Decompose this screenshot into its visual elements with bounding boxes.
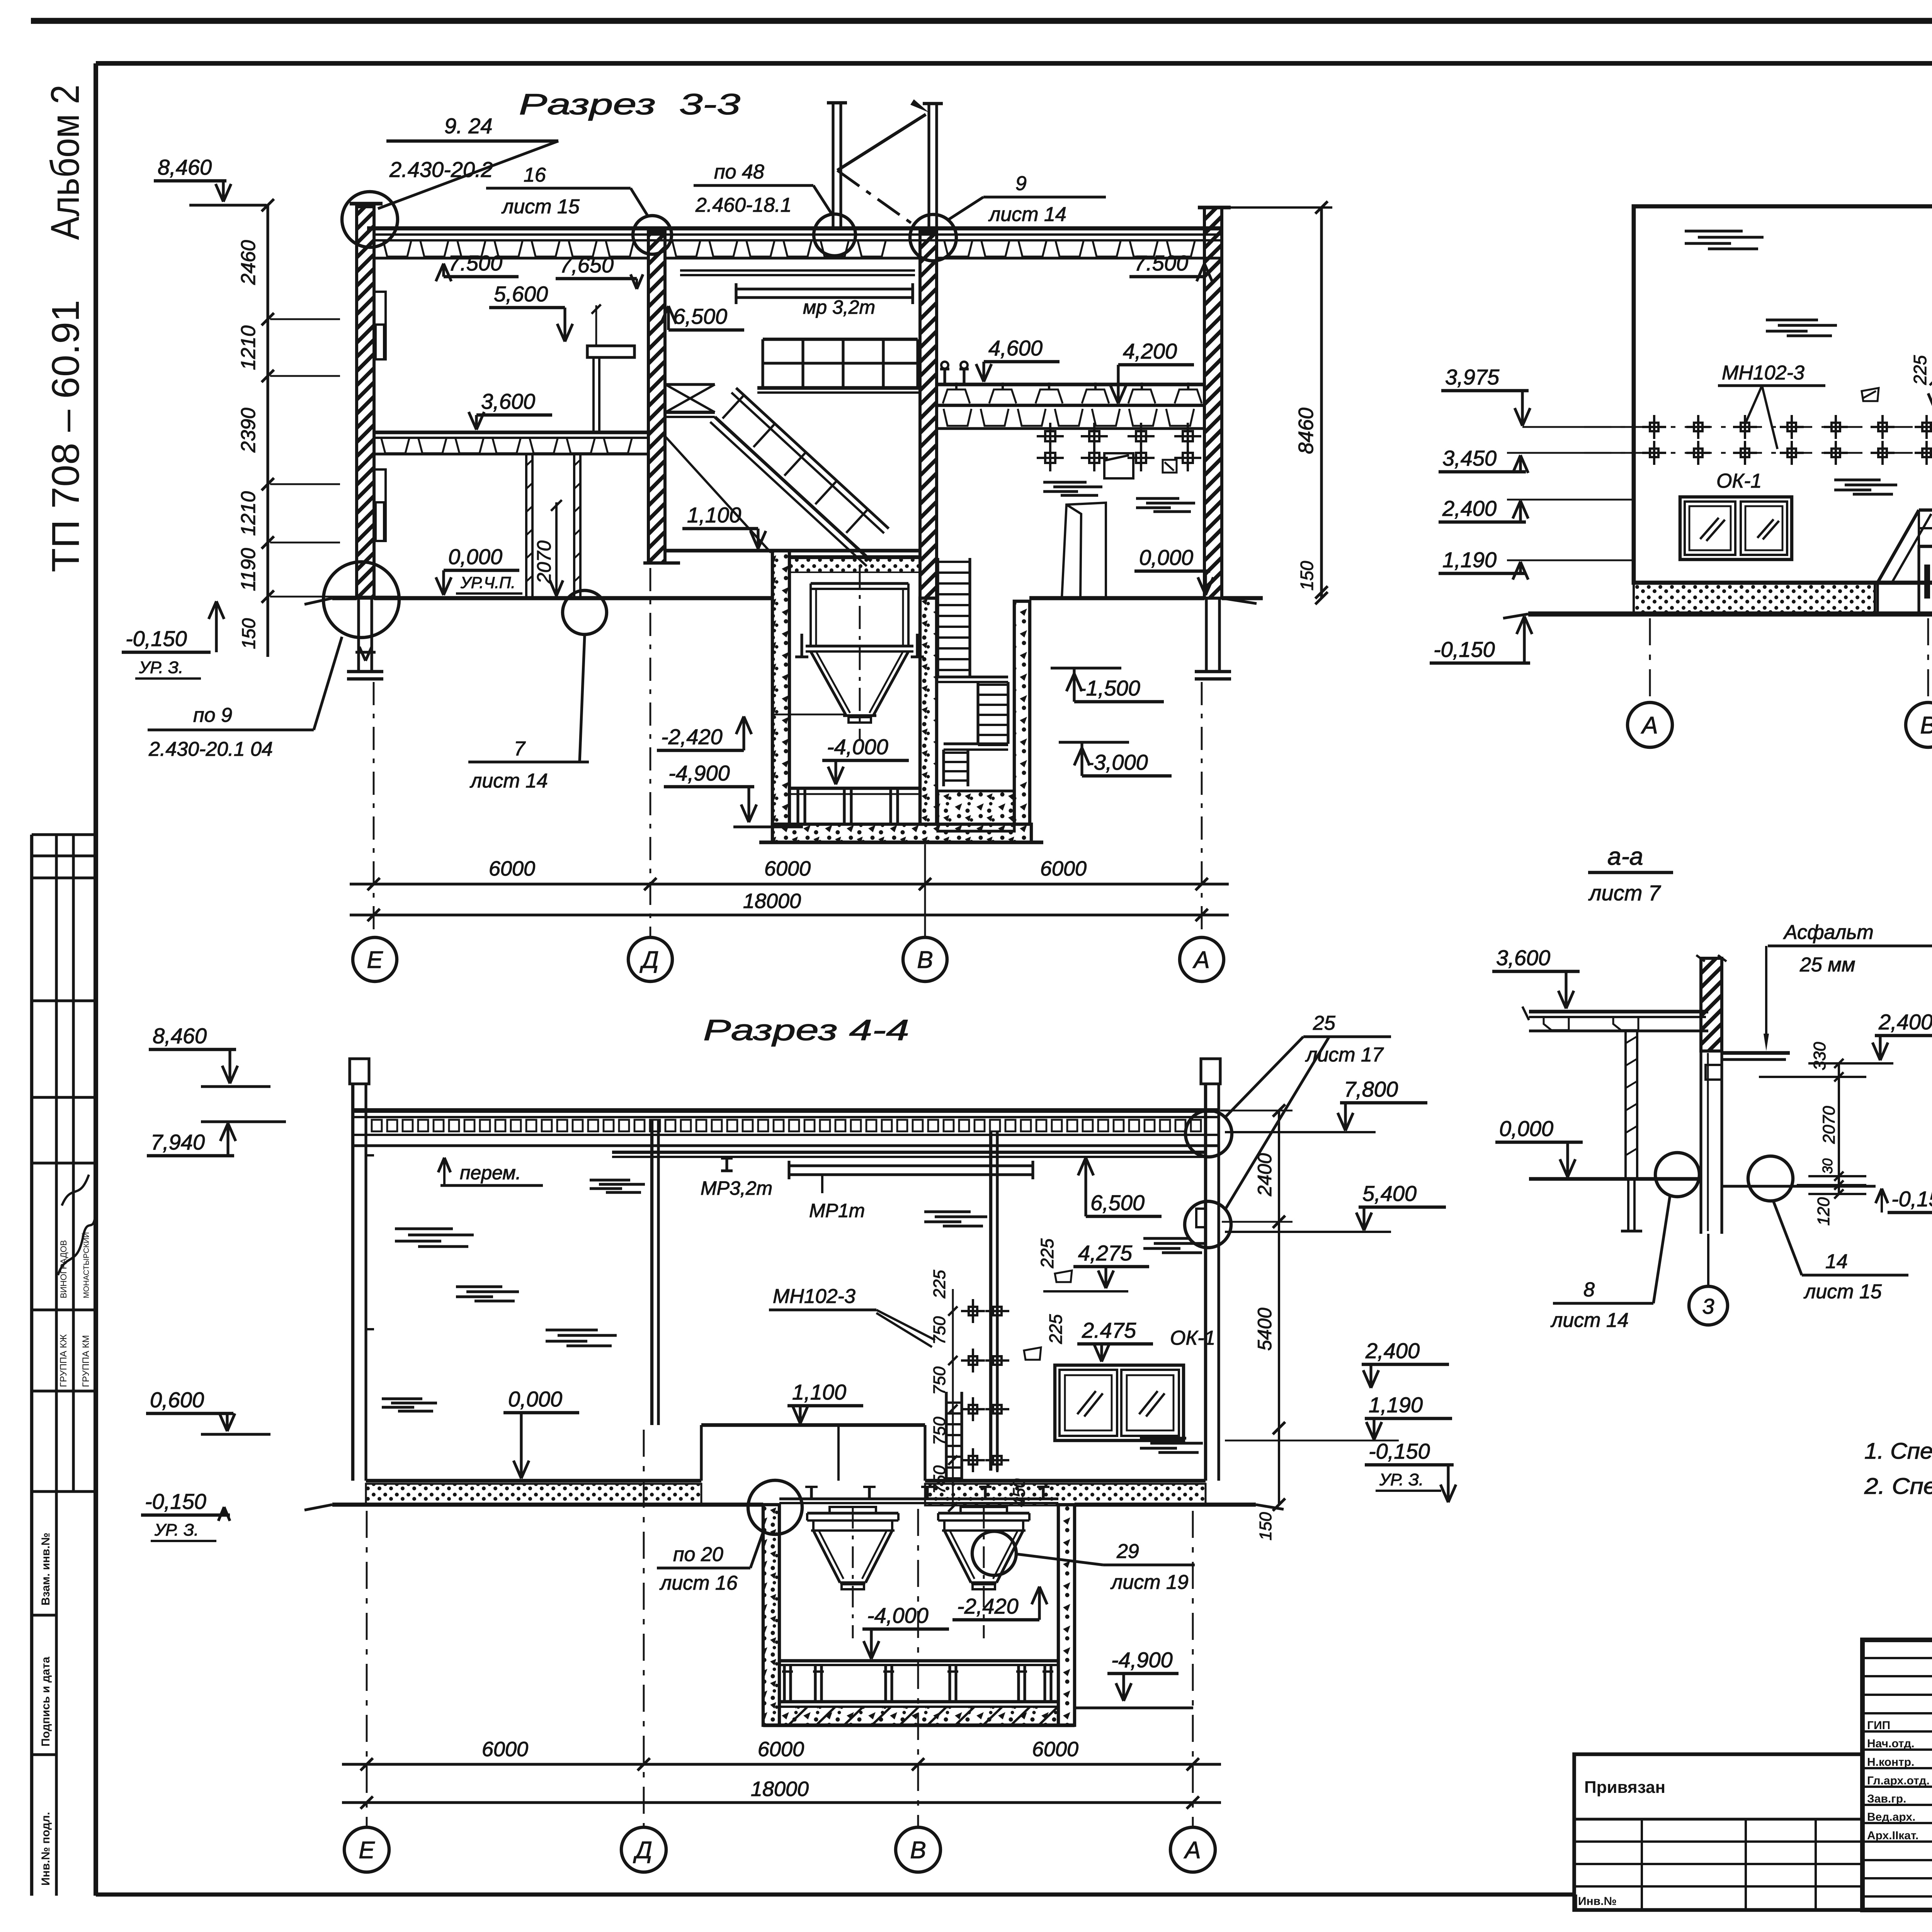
- wall axis B (hatched above ground): [920, 232, 937, 598]
- svg-text:А: А: [1192, 947, 1209, 973]
- platform +1.100 section 4-4: [701, 1423, 925, 1427]
- svg-text:МР3,2т: МР3,2т: [701, 1177, 772, 1199]
- svg-text:18000: 18000: [743, 889, 801, 913]
- svg-text:-0,150: -0,150: [1891, 1187, 1932, 1211]
- anchor crosses column section 4-4: [969, 1307, 977, 1315]
- svg-text:120: 120: [1814, 1197, 1833, 1226]
- ladder section 4-4: [945, 1392, 947, 1480]
- level mark -1.500: [1051, 667, 1121, 669]
- facade axis circle B: [1906, 702, 1932, 747]
- porch platform front: [1919, 546, 1932, 614]
- svg-text:МН102-3: МН102-3: [1722, 362, 1804, 384]
- left mid landing: [665, 411, 715, 414]
- svg-text:перем.: перем.: [460, 1162, 521, 1184]
- svg-text:2.430-20.2: 2.430-20.2: [389, 157, 493, 182]
- svg-text:Гл.арх.отд.: Гл.арх.отд.: [1867, 1774, 1930, 1787]
- svg-text:ГРУППА КЖ: ГРУППА КЖ: [58, 1334, 69, 1387]
- basement stair bank 1: [936, 558, 939, 677]
- svg-text:Д: Д: [639, 947, 659, 973]
- hopper 1 section 4-4: [807, 1512, 898, 1514]
- small flag symbol 2 section 4-4: [1024, 1347, 1041, 1360]
- svg-text:150: 150: [239, 618, 259, 649]
- axis extensions section 4-4: [366, 1511, 368, 1828]
- hopper centerline: [859, 565, 861, 740]
- svg-text:-0,150: -0,150: [1434, 637, 1495, 662]
- pit floor and posts section 4-4: [779, 1659, 1058, 1662]
- title block signature rows: [1862, 1657, 1932, 1659]
- detail circle roof right corner: [1185, 1111, 1232, 1157]
- svg-text:30: 30: [1820, 1158, 1835, 1174]
- svg-text:2070: 2070: [533, 541, 555, 584]
- svg-text:7.500: 7.500: [448, 251, 502, 275]
- svg-text:ТП 708 – 60.91: ТП 708 – 60.91: [44, 300, 87, 572]
- svg-text:Привязан: Привязан: [1584, 1778, 1665, 1797]
- svg-text:7,940: 7,940: [151, 1130, 205, 1154]
- svg-text:3,600: 3,600: [1496, 946, 1550, 970]
- svg-text:7,650: 7,650: [560, 253, 614, 277]
- detail a-a canopy: [1722, 1051, 1790, 1055]
- facade axis leader B: [1927, 618, 1929, 702]
- svg-text:-0,150: -0,150: [126, 626, 187, 651]
- svg-text:2,400: 2,400: [1442, 496, 1497, 520]
- left dimension chain: [266, 205, 269, 657]
- detail circle po48 mast base: [814, 214, 855, 256]
- right wall section 4-4: [1204, 1084, 1207, 1481]
- svg-text:6000: 6000: [482, 1738, 528, 1761]
- svg-text:150: 150: [1297, 561, 1317, 590]
- svg-text:7.500: 7.500: [1134, 251, 1188, 275]
- svg-text:6000: 6000: [758, 1738, 804, 1761]
- svg-text:1210: 1210: [237, 325, 260, 370]
- middle wall axis D section 4-4: [650, 1121, 653, 1425]
- svg-text:Асфальт: Асфальт: [1783, 921, 1874, 944]
- wall axis B section 4-4: [989, 1132, 992, 1471]
- pit bottom slab: [772, 824, 1031, 842]
- axis circle E section 4-4: [344, 1827, 389, 1872]
- svg-text:лист 16: лист 16: [659, 1572, 738, 1594]
- svg-text:225: 225: [1910, 355, 1930, 385]
- svg-text:2.460-18.1: 2.460-18.1: [695, 194, 792, 216]
- svg-text:8,460: 8,460: [158, 155, 212, 179]
- anchor crosses row 2: [1650, 449, 1658, 457]
- hopper 2 section 4-4: [938, 1512, 1029, 1514]
- svg-text:-0,150: -0,150: [145, 1489, 206, 1514]
- partition 5.600 upper left bay: [587, 346, 634, 357]
- dimension line 18000 section 3-3: [350, 913, 1229, 916]
- wall break mark below E base: [355, 651, 376, 653]
- svg-text:МР1т: МР1т: [809, 1200, 865, 1221]
- svg-text:Е: Е: [359, 1837, 375, 1864]
- axis circle B section 4-4: [896, 1827, 940, 1872]
- detail circle D-roof: [633, 216, 672, 254]
- svg-text:3,450: 3,450: [1442, 446, 1497, 470]
- facade axis leader A: [1649, 618, 1651, 702]
- svg-text:А: А: [1183, 1837, 1201, 1864]
- column A below ground with foundation: [1205, 598, 1207, 672]
- svg-text:225: 225: [1037, 1238, 1057, 1269]
- MN102-3 leaders: [1745, 386, 1762, 424]
- svg-text:0,000: 0,000: [448, 544, 502, 569]
- ground line section 3-3: [332, 596, 357, 600]
- wall axis A (right, hatched): [1204, 207, 1222, 598]
- facade texture dashes: [1685, 230, 1743, 232]
- svg-text:В: В: [910, 1837, 926, 1864]
- dimension line 6000x3 section 4-4: [342, 1763, 1221, 1765]
- svg-text:0,000: 0,000: [508, 1387, 562, 1411]
- svg-text:В: В: [917, 947, 933, 973]
- basement stair bank 3: [942, 750, 945, 786]
- svg-text:Инв.№ подл.: Инв.№ подл.: [39, 1812, 52, 1886]
- svg-text:16: 16: [524, 164, 546, 186]
- svg-text:6000: 6000: [1040, 857, 1087, 880]
- svg-text:9. 24: 9. 24: [444, 114, 493, 138]
- svg-text:лист 19: лист 19: [1110, 1571, 1189, 1594]
- svg-text:лист 15: лист 15: [501, 196, 580, 218]
- detail a-a wall above slab hatched: [1701, 958, 1722, 1051]
- svg-text:7,800: 7,800: [1344, 1077, 1398, 1101]
- detail a-a floor slab: [1529, 1010, 1708, 1014]
- texture dashes section 4-4: [395, 1227, 453, 1230]
- svg-text:330: 330: [1810, 1042, 1829, 1070]
- svg-text:6000: 6000: [764, 857, 811, 880]
- pit base slab section 4-4: [779, 1707, 1058, 1725]
- svg-text:УР.Ч.П.: УР.Ч.П.: [460, 573, 515, 592]
- stair flight pickets: [723, 395, 744, 418]
- svg-text:3,975: 3,975: [1445, 365, 1500, 389]
- drawing frame: [96, 61, 1932, 66]
- svg-text:2,400: 2,400: [1878, 1010, 1932, 1034]
- stair shaft right wall concrete: [1014, 601, 1030, 824]
- svg-text:мр 3,2т: мр 3,2т: [803, 296, 875, 318]
- roof section 4-4: [353, 1108, 1219, 1113]
- svg-text:9: 9: [1015, 172, 1027, 195]
- pit hopper body: [810, 583, 812, 646]
- pit hopper rim: [811, 582, 908, 585]
- svg-text:-1,500: -1,500: [1079, 676, 1140, 700]
- wall opening squares right room: [1104, 453, 1133, 478]
- under-stair strut: [665, 437, 771, 553]
- svg-text:Альбом 2: Альбом 2: [43, 85, 88, 240]
- level line -2.420 extension: [774, 714, 844, 716]
- svg-text:-3,000: -3,000: [1087, 750, 1148, 774]
- door leaf right room: [1062, 503, 1106, 598]
- svg-text:Подпись и дата: Подпись и дата: [39, 1656, 52, 1747]
- svg-text:8,460: 8,460: [153, 1024, 207, 1048]
- wall axis B below ground (concrete): [920, 598, 937, 824]
- svg-text:225: 225: [930, 1270, 949, 1299]
- svg-text:0,000: 0,000: [1499, 1116, 1553, 1141]
- svg-text:2,400: 2,400: [1365, 1338, 1420, 1363]
- svg-text:лист 14: лист 14: [988, 203, 1066, 226]
- monorail MR 3.2t beam: [736, 289, 913, 298]
- facade axis circle A: [1628, 702, 1672, 747]
- svg-text:-4,000: -4,000: [827, 735, 888, 759]
- stair shaft bottom block: [938, 791, 1014, 831]
- porch posts: [1924, 565, 1930, 599]
- detail circle pit corner: [748, 1480, 802, 1534]
- svg-text:750: 750: [930, 1316, 949, 1345]
- left stamp signatures: [58, 1217, 95, 1275]
- level mark -3.000: [1059, 741, 1129, 743]
- svg-text:8460: 8460: [1294, 408, 1318, 454]
- svg-text:1,100: 1,100: [687, 503, 741, 527]
- upper landing floor: [757, 386, 920, 390]
- svg-text:1210: 1210: [237, 491, 260, 536]
- detail circle partition base: [563, 590, 607, 634]
- dimension line 18000 section 4-4: [342, 1801, 1221, 1804]
- stair flight diagonals: [715, 417, 871, 561]
- svg-text:Н.контр.: Н.контр.: [1867, 1756, 1914, 1769]
- svg-text:29: 29: [1116, 1540, 1139, 1563]
- monorail beams mid bay: [680, 269, 915, 272]
- crane rail beam section 4-4: [612, 1151, 1206, 1154]
- axis circle D section 3-3: [628, 937, 672, 981]
- dim chain 750 section 4-4: [952, 1289, 954, 1507]
- floor line 0.000 section 4-4: [366, 1479, 701, 1483]
- svg-text:0,000: 0,000: [1139, 545, 1193, 570]
- svg-text:1,100: 1,100: [792, 1380, 846, 1404]
- svg-text:-2,420: -2,420: [661, 724, 723, 749]
- svg-text:2390: 2390: [237, 408, 260, 453]
- porch left ramp: [1878, 510, 1919, 583]
- roof slab section 3-3: [367, 226, 1222, 231]
- svg-text:Разрез 4-4: Разрез 4-4: [703, 1014, 909, 1047]
- svg-text:2. Спецификация стальных эле: 2. Спецификация стальных элементов — лис…: [1864, 1474, 1932, 1499]
- svg-text:3,600: 3,600: [481, 389, 535, 413]
- left wall section 4-4: [351, 1084, 354, 1481]
- svg-text:ГИП: ГИП: [1867, 1719, 1890, 1732]
- axis circle A section 3-3: [1180, 937, 1224, 981]
- svg-text:Разрез 3-3: Разрез 3-3: [519, 88, 740, 121]
- svg-text:2.430-20.1 04: 2.430-20.1 04: [148, 738, 273, 760]
- small posts left end of sleeper row: [943, 369, 946, 384]
- right dim chain section 4-4: [1278, 1111, 1280, 1505]
- small flag symbol facade: [1862, 388, 1879, 401]
- pit right wall section 4-4: [1058, 1505, 1075, 1725]
- wall axis E (left, hatched): [357, 207, 374, 598]
- svg-text:лист 14: лист 14: [469, 770, 548, 792]
- svg-text:150: 150: [1256, 1512, 1275, 1541]
- svg-text:А: А: [1640, 712, 1658, 739]
- basement stair bank 2: [976, 682, 979, 744]
- stair landings: [938, 675, 1008, 678]
- detail ground lines: [1529, 1177, 1698, 1181]
- svg-text:УР. З.: УР. З.: [1379, 1470, 1423, 1489]
- detail dim chain verticals: [1838, 1063, 1840, 1194]
- svg-text:6000: 6000: [489, 857, 535, 880]
- svg-text:4,600: 4,600: [988, 336, 1043, 360]
- facade outline: [1634, 206, 1932, 583]
- svg-text:2400: 2400: [1254, 1153, 1276, 1196]
- label perem with arrow: [443, 1160, 446, 1185]
- svg-text:25: 25: [1313, 1012, 1336, 1034]
- svg-text:лист 7: лист 7: [1588, 881, 1661, 905]
- facade plinth dotted band: [1634, 583, 1875, 614]
- svg-text:18000: 18000: [751, 1777, 809, 1801]
- floor slab 3.600 left bay: [374, 430, 648, 434]
- svg-text:3: 3: [1702, 1294, 1714, 1318]
- svg-text:Взам. инв.№: Взам. инв.№: [39, 1532, 52, 1605]
- small flag symbol 1 section 4-4: [1055, 1270, 1072, 1282]
- svg-text:8: 8: [1583, 1279, 1595, 1301]
- svg-text:6000: 6000: [1032, 1738, 1078, 1761]
- axis circle B section 3-3: [903, 937, 947, 981]
- facade ground line: [1528, 611, 1932, 616]
- svg-text:25 мм: 25 мм: [1799, 954, 1855, 976]
- pit ceiling beams section 4-4: [779, 1497, 1058, 1500]
- svg-text:750: 750: [930, 1366, 949, 1395]
- svg-text:5,400: 5,400: [1362, 1181, 1417, 1206]
- hopper side supports: [800, 634, 803, 657]
- pit left wall section 4-4: [763, 1505, 779, 1725]
- svg-text:4,275: 4,275: [1078, 1241, 1133, 1265]
- wall E pilaster recesses: [374, 292, 386, 359]
- title block outline: [1862, 1640, 1932, 1910]
- svg-text:ГРУППА КМ: ГРУППА КМ: [81, 1335, 91, 1387]
- svg-text:5400: 5400: [1254, 1308, 1276, 1350]
- detail circle wall right: [1185, 1201, 1231, 1248]
- svg-text:Нач.отд.: Нач.отд.: [1867, 1737, 1915, 1750]
- svg-text:МН102-3: МН102-3: [773, 1285, 855, 1308]
- monorail MR1t: [789, 1164, 1033, 1167]
- svg-text:УР. З.: УР. З.: [139, 658, 183, 677]
- detail a-a partition: [1624, 1031, 1627, 1179]
- crane mast above roof: [832, 103, 834, 228]
- left margin stamp table: [30, 835, 33, 1896]
- pit left wall concrete: [772, 551, 789, 824]
- svg-text:лист 14: лист 14: [1550, 1309, 1629, 1332]
- svg-text:по 48: по 48: [714, 161, 764, 183]
- svg-text:а-а: а-а: [1607, 842, 1643, 870]
- floor slab +1.100 middle bay: [665, 549, 920, 553]
- svg-text:Д: Д: [633, 1837, 652, 1864]
- svg-text:2070: 2070: [1820, 1106, 1838, 1144]
- rail sleepers on 4.600 floor right bay: [938, 383, 1204, 386]
- svg-text:6,500: 6,500: [1090, 1190, 1145, 1215]
- column E below ground with foundation: [357, 598, 360, 672]
- svg-text:1. Спецификация элементов за: 1. Спецификация элементов заполнения про…: [1864, 1439, 1932, 1464]
- svg-text:-2,420: -2,420: [957, 1594, 1019, 1618]
- mast brace diagonal: [837, 114, 926, 170]
- svg-text:1,190: 1,190: [1442, 548, 1497, 572]
- aeration crosses in right room: [1045, 431, 1055, 441]
- svg-text:Вед.арх.: Вед.арх.: [1867, 1811, 1915, 1823]
- svg-text:225: 225: [1046, 1314, 1066, 1344]
- wall axis D (hatched): [648, 232, 665, 563]
- floor slab 4.600 right bay: [937, 404, 1204, 407]
- svg-text:-4,900: -4,900: [1111, 1648, 1173, 1672]
- svg-text:6,500: 6,500: [673, 304, 727, 328]
- svg-text:УР. З.: УР. З.: [154, 1520, 199, 1539]
- svg-text:Арх.IIкат.: Арх.IIкат.: [1867, 1829, 1918, 1842]
- svg-text:по 9: по 9: [193, 704, 232, 726]
- detail circle 8: [1655, 1153, 1699, 1197]
- svg-text:Е: Е: [367, 947, 383, 973]
- svg-text:2.475: 2.475: [1082, 1318, 1136, 1342]
- svg-text:7: 7: [514, 738, 526, 760]
- detail circle E wall base: [323, 562, 399, 638]
- svg-text:Зав.гр.: Зав.гр.: [1867, 1793, 1906, 1805]
- svg-text:1,190: 1,190: [1369, 1393, 1423, 1417]
- svg-text:-0,150: -0,150: [1369, 1439, 1430, 1463]
- dimension line 6000x3 section 3-3: [350, 883, 1229, 885]
- svg-text:по 20: по 20: [673, 1543, 723, 1566]
- axis circle D section 4-4: [621, 1827, 666, 1872]
- anchor crosses row 1: [1650, 423, 1658, 431]
- svg-text:1190: 1190: [237, 548, 260, 591]
- svg-text:14: 14: [1825, 1250, 1848, 1273]
- sheet top trim line: [31, 18, 1932, 24]
- svg-text:-4,900: -4,900: [668, 761, 730, 785]
- upper stair landing railing: [761, 339, 764, 388]
- svg-text:ОК-1: ОК-1: [1716, 470, 1762, 492]
- detail circle E-roof corner: [342, 192, 398, 247]
- plinth dotted band section 4-4: [366, 1484, 701, 1505]
- svg-text:4,200: 4,200: [1123, 339, 1177, 363]
- svg-text:Инв.№: Инв.№: [1578, 1895, 1617, 1908]
- axis circle 3 detail: [1707, 1234, 1709, 1286]
- hoist MR3.2t symbol: [725, 1157, 728, 1171]
- texture dashes right room: [1043, 481, 1087, 483]
- detail a-a wall below: [1699, 1051, 1702, 1234]
- svg-text:ОК-1: ОК-1: [1170, 1327, 1215, 1349]
- detail circle hopper 2: [972, 1531, 1016, 1575]
- svg-text:5,600: 5,600: [494, 282, 548, 306]
- svg-text:лист 15: лист 15: [1803, 1281, 1882, 1303]
- detail circle 14: [1748, 1156, 1793, 1201]
- window OK-1 facade: [1680, 497, 1792, 560]
- svg-text:В: В: [1920, 712, 1932, 739]
- porch railing: [1919, 509, 1932, 512]
- ground line section 4-4: [332, 1503, 763, 1507]
- axis circle E section 3-3: [353, 937, 397, 981]
- svg-text:0,600: 0,600: [150, 1388, 204, 1412]
- axis extension lines section 3-3: [373, 682, 375, 937]
- detail circle B-roof: [910, 214, 956, 261]
- svg-text:2460: 2460: [237, 240, 260, 285]
- dim 2070 partition: [555, 502, 558, 597]
- svg-text:-4,000: -4,000: [867, 1603, 929, 1628]
- hopper funnel: [811, 651, 846, 716]
- mast brace dash-dot diagonal: [837, 170, 923, 232]
- window OK-1 section 4-4: [1055, 1365, 1184, 1440]
- pit floor and posts: [789, 787, 920, 790]
- privyazan block: [1574, 1754, 1862, 1910]
- interior partitions left bay: [525, 454, 527, 598]
- axis circle A section 4-4: [1170, 1827, 1215, 1872]
- vertical dim 8460 right: [1222, 206, 1332, 209]
